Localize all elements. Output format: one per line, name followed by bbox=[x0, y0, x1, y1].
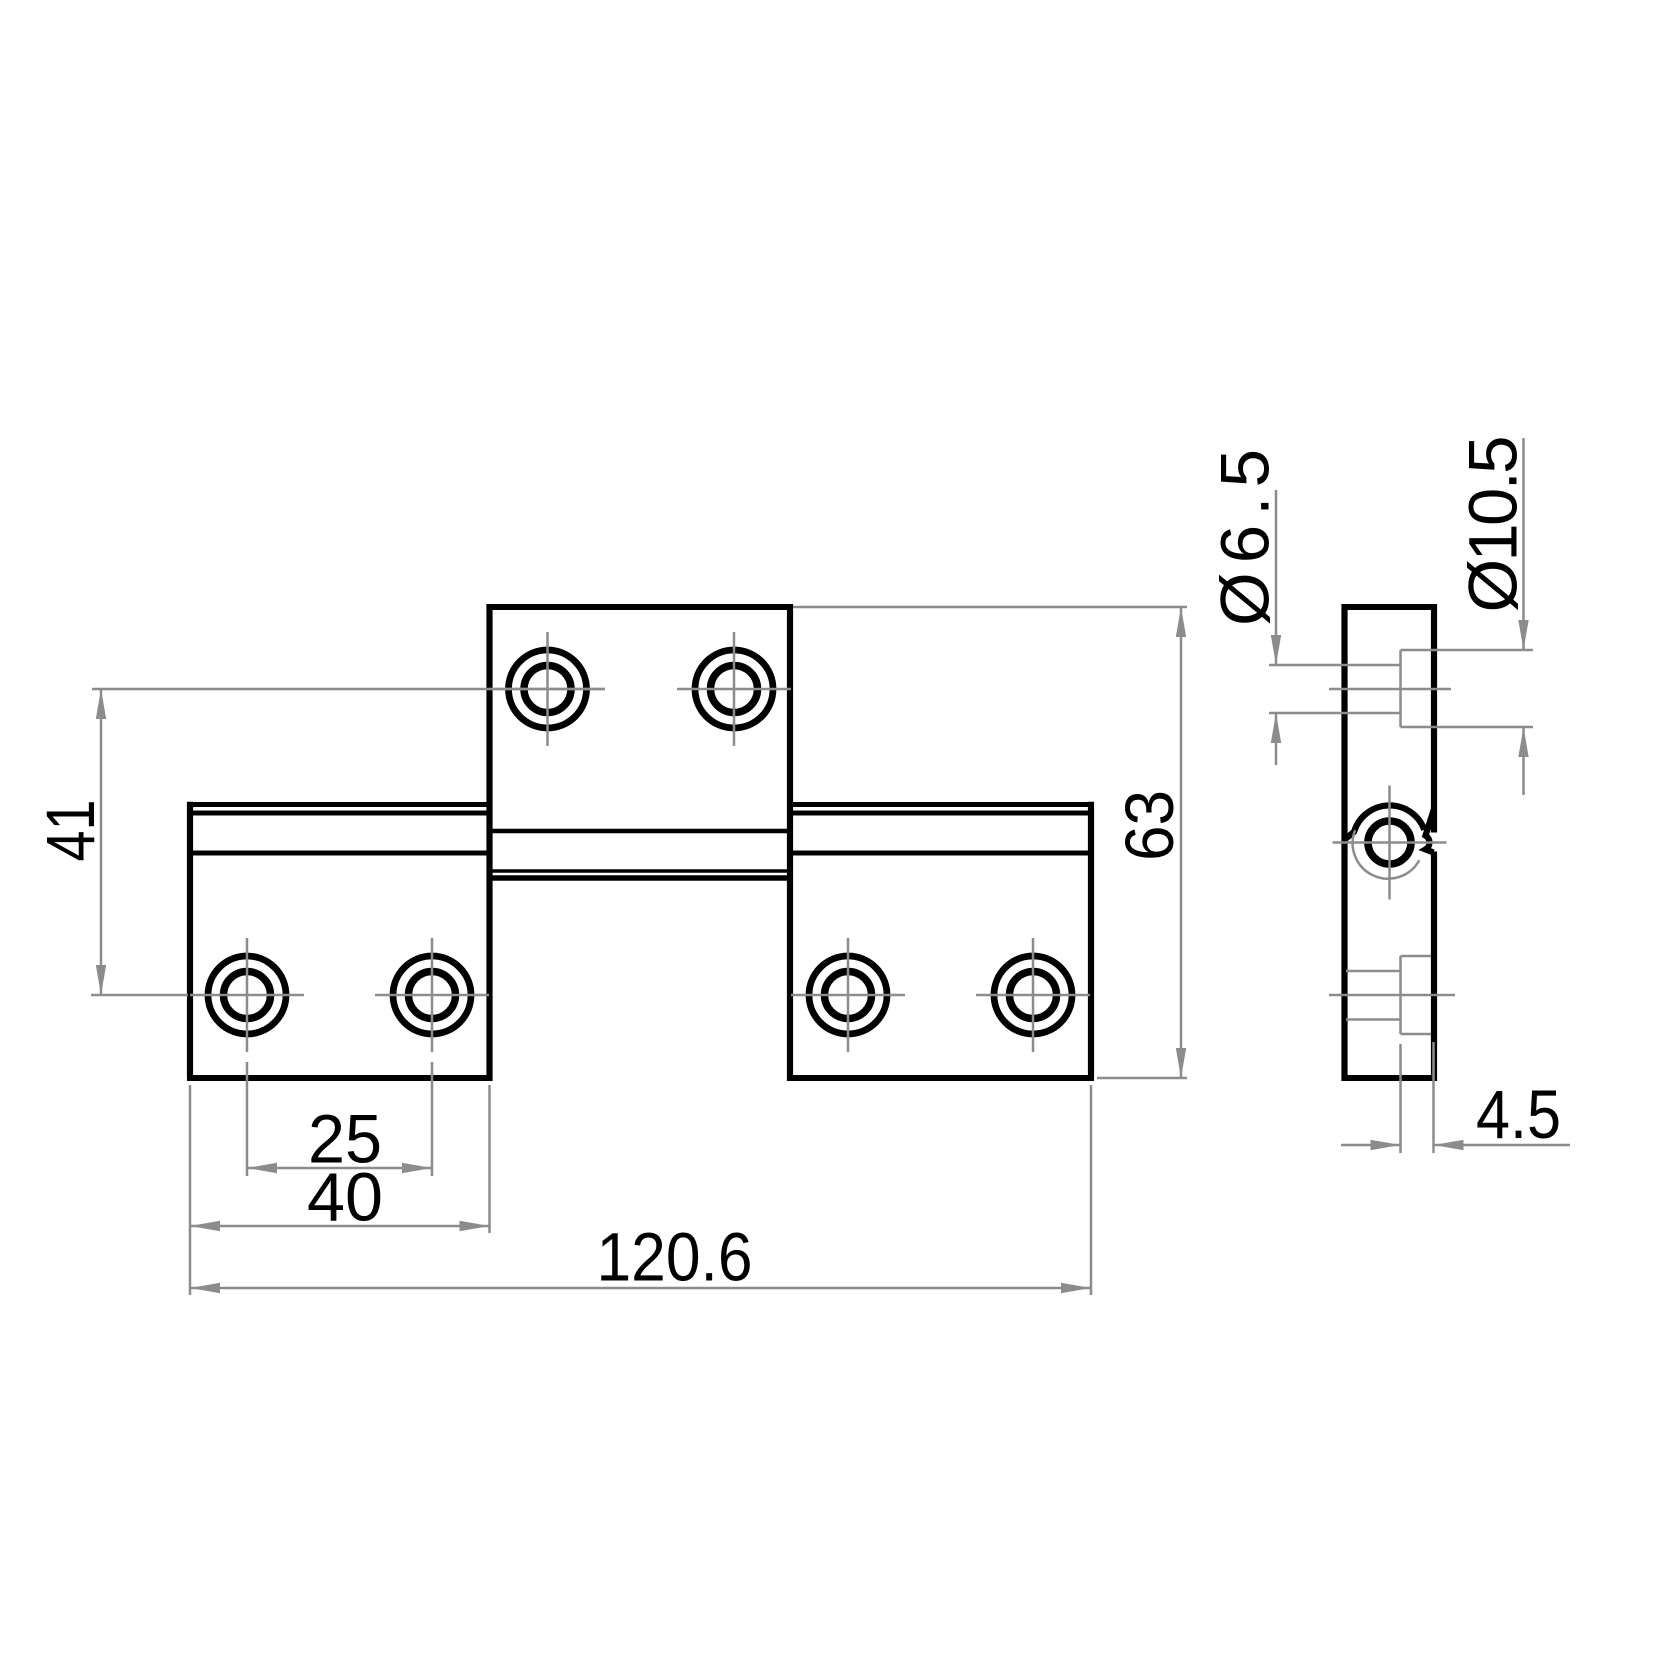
left leaf plate outline bbox=[187, 802, 492, 1078]
hole bottom-left-1 bbox=[208, 956, 286, 1034]
center leaf left edge bbox=[486, 604, 492, 1081]
hole bottom-right-2 bbox=[994, 956, 1072, 1034]
dimension 63: extension lines bbox=[793, 607, 1187, 1078]
dimension 40: extension lines bbox=[190, 1085, 490, 1295]
side view: knuckle outer curl (black arc) bbox=[1346, 805, 1424, 838]
svg-text:120.6: 120.6 bbox=[597, 1218, 753, 1295]
dimension 4.5: extension lines bbox=[1401, 1042, 1434, 1153]
svg-text:41: 41 bbox=[32, 800, 109, 862]
center (upper) leaf plate outline bbox=[487, 607, 793, 878]
dimension Ø6.5: dimension line, outside arrows bbox=[1275, 490, 1278, 665]
centerline crosshair hole top-right bbox=[677, 632, 791, 746]
side view: pin hole circle bbox=[1368, 821, 1411, 864]
centerline crosshair hole bottom-right-1 bbox=[791, 938, 905, 1052]
dimension 63: dimension line with arrows bbox=[1180, 607, 1183, 1078]
dimension 25: dimension line with arrows bbox=[247, 1167, 432, 1170]
dimension 41: dimension line with arrows bbox=[100, 689, 103, 995]
hole bottom-right-1 bbox=[809, 956, 887, 1034]
centerline crosshair hole bottom-right-2 bbox=[976, 938, 1090, 1052]
centerline crosshair hole bottom-left-2 bbox=[375, 938, 489, 1052]
hole top-right (counterbored) bbox=[695, 650, 773, 728]
svg-text:40: 40 bbox=[307, 1158, 383, 1235]
side view: knuckle hook (right edge wrap) bbox=[1426, 809, 1435, 853]
dimension 40: dimension line with arrows bbox=[190, 1225, 490, 1228]
dimension 41: extension lines bbox=[91, 689, 605, 995]
hole top-left (counterbored) bbox=[509, 650, 587, 728]
dimension 25: extension lines (hole centerlines extended) bbox=[247, 1062, 432, 1176]
dimension 120.6: dimension line with arrows bbox=[190, 1287, 1091, 1290]
hole bottom-left-2 bbox=[393, 956, 471, 1034]
dimension 120.6: extension line right bbox=[1090, 1085, 1093, 1295]
side view: top hole counterbore (gray) bbox=[1269, 650, 1533, 727]
svg-text:Ø6.5: Ø6.5 bbox=[1206, 449, 1283, 626]
centerline crosshair hole top-left bbox=[491, 632, 605, 746]
side view: plate outline bbox=[1342, 604, 1437, 1081]
right leaf plate outline bbox=[788, 802, 1094, 1078]
side view: opposing knuckle (thin gray arc) bbox=[1353, 830, 1420, 879]
centerline crosshair pin hole bbox=[1333, 786, 1447, 900]
center leaf right edge bbox=[787, 604, 793, 1081]
svg-text:Ø10.5: Ø10.5 bbox=[1454, 436, 1531, 613]
svg-text:4.5: 4.5 bbox=[1476, 1076, 1561, 1153]
side view: bottom hole counterbore (gray) bbox=[1329, 956, 1455, 1034]
dimension 4.5: dimension line, outside arrows bbox=[1341, 1144, 1401, 1147]
svg-text:63: 63 bbox=[1111, 790, 1188, 861]
centerline crosshair hole bottom-left-1 bbox=[190, 938, 304, 1052]
dimension Ø10.5: dimension line, outside arrows bbox=[1522, 438, 1525, 650]
